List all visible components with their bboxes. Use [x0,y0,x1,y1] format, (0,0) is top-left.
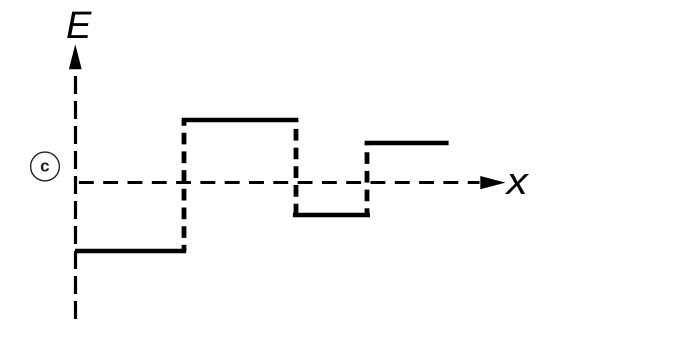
step segment H3 (below axis) [293,213,370,218]
step riser V3 (dashed) [365,143,370,215]
step segment H1 (below axis) [75,249,186,254]
E-axis vertical dashed line [74,66,77,321]
step segment H2 (above axis) [182,118,299,123]
x-axis arrowhead [480,176,505,189]
circled label c: circle [31,152,60,181]
step riser V1 (dashed) [182,120,187,251]
svg-text:c: c [40,157,49,176]
svg-text:E: E [66,5,92,47]
step segment H4 (above axis) [365,141,449,146]
E-axis arrowhead [69,44,82,69]
x-axis horizontal dashed line [76,181,480,184]
step riser V2 (dashed) [294,120,299,215]
svg-text:x: x [504,159,529,202]
